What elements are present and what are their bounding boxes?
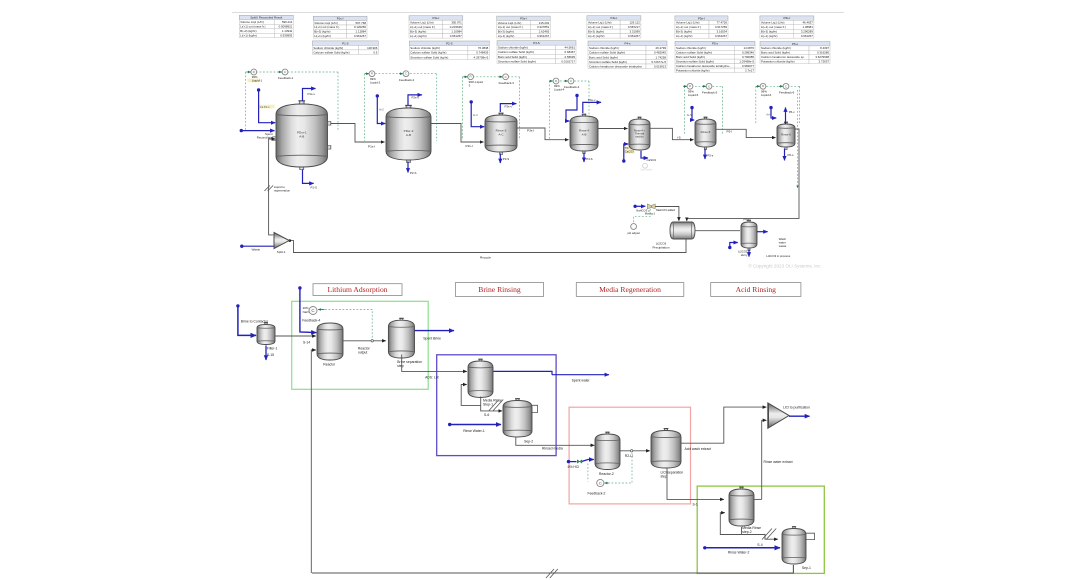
split node dot [289,239,292,242]
vessel brine separation [388,318,414,358]
NaOH label [303,306,311,314]
svg-text:Ai-3: Ai-3 [473,113,478,117]
stream P2-S [407,162,409,173]
ghost stream circle [643,163,648,168]
controller pH adjust [631,224,637,230]
svg-text:Calcium hexaboron dexaoxide te: Calcium hexaboron dexaoxide tetrahydra [589,65,642,69]
feed stream V2 [376,94,386,123]
separator Sep-2 [503,399,532,437]
stream spent water a [494,371,553,374]
region acid rinsing [697,486,824,573]
svg-text:6% HCl: 6% HCl [568,465,580,469]
svg-text:SplitU Reconciled Result: SplitU Reconciled Result [250,16,282,20]
svg-text:B(+3) (kg/hr): B(+3) (kg/hr) [588,30,604,34]
svg-text:590.214: 590.214 [282,20,293,24]
stream wash out [757,231,768,233]
filter Filter-1 [257,323,275,345]
svg-text:0.587217: 0.587217 [628,25,640,29]
stream mixer to precip [655,207,679,221]
svg-text:Feedback-4: Feedback-4 [302,319,320,323]
svg-text:Li(+1) (kg/hr): Li(+1) (kg/hr) [588,34,605,38]
stream sep1 bottom recycle [312,565,793,573]
svg-text:Ai-2: Ai-2 [379,108,384,112]
funnel left edge [767,403,769,428]
svg-text:Rinse Water-1: Rinse Water-1 [463,429,485,433]
svg-text:1.03498e-5: 1.03498e-5 [739,60,754,64]
svg-text:P2-S: P2-S [446,42,452,46]
svg-text:1.10984: 1.10984 [451,30,462,34]
stream S-1 [667,469,724,500]
vessel Rinse-5 [695,117,716,149]
svg-text:FI: FI [470,76,472,79]
svg-text:0.482045: 0.482045 [654,51,666,55]
stream P2s-I pipe [431,124,484,143]
svg-text:NaHCO3 added: NaHCO3 added [656,208,676,212]
stream P1s-v [303,89,316,102]
stream precip bottom [685,239,687,241]
svg-text:Sodium chloride (kg/hr): Sodium chloride (kg/hr) [498,46,528,50]
feedback-2 left dashes [587,464,589,482]
svg-text:2.55635: 2.55635 [565,55,576,59]
svg-text:Rinse-5: Rinse-5 [701,130,711,134]
controller feedback 4 [568,78,574,84]
stream NaOH feed [298,286,316,332]
liquid to regeneration label [274,185,291,193]
svg-text:Li(+1) out (mass fr.): Li(+1) out (mass fr.) [588,25,613,29]
svg-text:Sep-1: Sep-1 [802,566,811,570]
svg-text:350.971: 350.971 [451,21,462,25]
svg-text:Li(+1) (kg/hr): Li(+1) (kg/hr) [240,34,257,38]
controller feedback 3 [503,74,509,80]
controller PID 6 [760,83,766,89]
table P5s-I [675,16,728,38]
svg-text:P2s-I: P2s-I [433,16,440,20]
highlight behind Ca P1-s tag [259,105,275,109]
svg-text:C: C [785,84,787,88]
table P4-s [588,41,667,69]
control loop 3 right leg [518,77,520,140]
svg-text:S-1: S-1 [693,503,698,507]
stream media rinse to sep2 [481,397,502,411]
svg-text:S-15: S-15 [267,353,274,357]
svg-text:FI: FI [762,85,764,88]
vessel Li2CO3 precipitation [670,222,695,239]
svg-text:P2-S: P2-S [410,171,416,175]
svg-text:C: C [505,75,507,79]
svg-text:Feedback-6: Feedback-6 [779,91,795,95]
stream rinsed media [516,438,595,446]
header Brine Rinsing [455,283,543,297]
svg-text:S-6: S-6 [484,413,489,417]
svg-text:step-2: step-2 [742,530,752,534]
controller PID 1 [251,69,257,75]
svg-text:1.12884: 1.12884 [356,30,367,34]
reactor output node [371,340,373,342]
stream P4 pipe [598,128,628,130]
svg-text:output: output [358,351,367,355]
svg-text:Rinsed media: Rinsed media [542,447,563,451]
svg-text:Filter-1: Filter-1 [267,346,278,350]
svg-text:A-C: A-C [498,132,504,136]
svg-text:P1s-I: P1s-I [337,17,344,21]
controller feedback 5 [706,83,712,89]
svg-text:FI: FI [555,80,557,83]
svg-text:slurry: slurry [741,253,748,257]
stream ADS LiX [402,355,467,372]
svg-text:Liquid-1: Liquid-1 [252,79,263,83]
svg-text:Split-1: Split-1 [277,250,286,254]
stream recycle pipe [291,240,687,253]
stream rinse water extract [762,420,767,499]
loop sep1 to media rinse2 [720,513,741,535]
svg-text:Feedback-4: Feedback-4 [564,85,580,89]
controller 1 arrow a [247,71,251,73]
controller 4 label [554,84,565,92]
svg-text:Boric acid Solid (kg/hr): Boric acid Solid (kg/hr) [676,55,705,59]
feedback 6 long leg [797,90,799,188]
stream rinse water-1 [448,423,501,426]
vessel Rinse-3 [485,113,517,154]
media rinse step-1 label [483,398,502,406]
table P2s-I [409,16,463,38]
svg-text:B(+3) (kg/hr): B(+3) (kg/hr) [410,30,426,34]
control loop 4 right leg [588,81,590,139]
stream S-15 [265,346,267,361]
svg-text:Feedback-1: Feedback-1 [278,76,294,80]
svg-text:B(+3) (kg/hr): B(+3) (kg/hr) [498,30,514,34]
svg-text:3.72637: 3.72637 [819,60,830,64]
svg-text:P1-S: P1-S [342,41,348,45]
svg-text:Volume Liq1 (L/hr): Volume Liq1 (L/hr) [761,21,785,25]
vessel LiCl separation [651,429,681,468]
stream precip to wash pipe [695,230,740,232]
svg-text:step: step [397,364,404,368]
stream P1s-I pipe [331,124,385,143]
header Media Regeneration [576,283,684,297]
svg-text:46.4637: 46.4637 [802,21,813,25]
svg-text:Sodium chloride (kg/hr): Sodium chloride (kg/hr) [589,46,619,50]
region lithium adsorption [292,301,429,389]
controller 3 arrow a [464,76,468,78]
svg-text:14.0876: 14.0876 [744,46,755,50]
svg-text:Sodium chloride (kg/hr): Sodium chloride (kg/hr) [410,46,440,50]
svg-text:P5-s: P5-s [712,42,718,46]
stream LiCl to purification [789,415,810,417]
control loop 2 dashes [365,73,437,75]
svg-text:LiCl to purification: LiCl to purification [783,405,810,409]
loop junction to media rinse [461,385,481,406]
svg-text:Ai-6: Ai-6 [766,112,771,116]
stream media rinse2 to sep1 [742,527,778,539]
wash water waste label [779,237,787,248]
svg-text:P1s-I: P1s-I [368,144,375,148]
svg-text:Volume Liq1 (L/hr): Volume Liq1 (L/hr) [588,21,612,25]
svg-text:P6-v: P6-v [789,110,795,114]
svg-text:regeneration: regeneration [274,188,291,192]
pH adjust dashes [634,209,651,223]
svg-text:P3-S: P3-S [503,157,509,161]
svg-text:0.0098921: 0.0098921 [279,25,293,29]
stream acid wash extract [681,407,766,443]
svg-text:Recycle: Recycle [480,256,491,260]
svg-text:P2s-v: P2s-v [412,96,420,100]
svg-text:I-5: I-5 [677,136,681,140]
media rinse step-2 label [742,526,761,534]
stream HCl a [567,460,577,463]
stream S-14 [275,335,316,337]
recycle riser [311,350,316,573]
control loop 2 right leg [436,74,438,141]
feed stream V1 [257,88,275,122]
svg-text:Step-1: Step-1 [483,403,493,407]
stream I-5 pipe [650,128,694,139]
reactor Reactor [317,323,343,360]
stream spent brine [415,330,455,332]
feedback-2 right dashes [608,453,632,483]
svg-text:0.327851: 0.327851 [537,25,549,29]
svg-text:44.5661: 44.5661 [565,46,576,50]
svg-text:Strontium sulfate Solid (kg/hr: Strontium sulfate Solid (kg/hr) [676,60,714,64]
svg-text:P5-I: P5-I [727,129,733,133]
waste dot [240,245,243,248]
svg-text:Strontium sulfate Solid (kg/hr: Strontium sulfate Solid (kg/hr) [589,60,627,64]
svg-text:0.961267: 0.961267 [628,34,640,38]
svg-text:77.4726: 77.4726 [717,21,728,25]
svg-text:Li(+1) (kg/hr): Li(+1) (kg/hr) [761,34,778,38]
svg-text:C: C [570,79,572,83]
svg-text:A-B: A-B [582,132,587,136]
svg-text:B(+3) (kg/hr): B(+3) (kg/hr) [240,29,256,33]
svg-text:0.68467: 0.68467 [565,50,576,54]
svg-text:Sodium chloride (kg/hr): Sodium chloride (kg/hr) [313,46,343,50]
controller 5 arrow b [702,85,706,87]
control loop 1 left leg [245,72,247,131]
table P1s-I [313,16,367,38]
funnel LiCl collector [768,403,789,428]
svg-text:C: C [284,70,286,74]
liquid-to-regeneration pipe [269,139,276,235]
table SplitU Reconciled Result [239,15,293,38]
reactor Reactor-2 [595,432,620,469]
mixer Mixing-1 [647,204,655,209]
svg-text:Volume Liq1 (L/hr): Volume Liq1 (L/hr) [410,21,434,25]
svg-text:Media Regeneration: Media Regeneration [599,285,661,294]
svg-text:Waste: Waste [252,248,261,252]
svg-text:Liquid-5: Liquid-5 [688,93,699,97]
svg-text:waste: waste [779,244,787,248]
svg-text:B(+3) (kg/hr): B(+3) (kg/hr) [314,30,330,34]
svg-text:FI: FI [689,85,691,88]
feedback-4 arrow [318,309,324,311]
svg-text:129.122: 129.122 [629,21,640,25]
svg-text:Brine Rinsing: Brine Rinsing [478,285,521,294]
svg-text:B(+3) (kg/hr): B(+3) (kg/hr) [761,30,777,34]
stream P3-S [499,154,501,164]
stream P4-S [583,153,585,163]
svg-text:P6-s: P6-s [788,153,794,157]
svg-text:Li(+1) (kg/hr): Li(+1) (kg/hr) [410,34,427,38]
stream P3s-I pipe [517,128,569,140]
stream reactor output [343,340,386,342]
svg-text:Potassium chloride (kg/hr): Potassium chloride (kg/hr) [676,68,710,72]
svg-text:1.38981: 1.38981 [802,25,813,29]
controller 2 arrow b [399,73,403,75]
stream spent water b [552,374,609,376]
svg-text:P5-s: P5-s [707,154,713,158]
control loop 6 right leg [799,86,801,124]
feed stream V6 [690,106,694,120]
svg-text:118.906: 118.906 [367,46,378,50]
controller 6 arrow b [779,85,783,87]
svg-text:3.6279998: 3.6279998 [815,55,829,59]
svg-text:P3s-I: P3s-I [520,16,527,20]
control loop 4 dashes [550,80,590,82]
faint top rule [232,12,844,14]
svg-text:Liquid-2: Liquid-2 [370,80,381,84]
svg-text:Li(+1) out (mass fr.): Li(+1) out (mass fr.) [676,25,701,29]
stream R2-Li [620,450,650,452]
svg-text:Li(+1) out (mass fr.): Li(+1) out (mass fr.) [240,25,265,29]
svg-text:P1-S: P1-S [311,186,317,190]
svg-text:3.290289: 3.290289 [801,30,813,34]
control loop 3 left leg [461,77,463,140]
svg-text:3.31099: 3.31099 [629,30,640,34]
feed stream V3 [470,100,485,126]
svg-text:4.29708e-5: 4.29708e-5 [474,55,489,59]
svg-text:P4-s: P4-s [625,42,631,46]
controller PID 2 [369,71,375,77]
svg-text:Boric acid Solid (kg/hr): Boric acid Solid (kg/hr) [589,55,618,59]
svg-text:P6s-I: P6s-I [784,16,791,20]
svg-text:Calcium sulfate Solid (kg/hr): Calcium sulfate Solid (kg/hr) [676,51,712,55]
media rinse step-1 strikethrough [489,400,503,411]
table P4s-I [587,16,641,38]
stream P6-v [785,108,787,125]
svg-text:0.5: 0.5 [373,50,377,54]
svg-text:P5s-I: P5s-I [698,16,705,20]
svg-text:0.939993: 0.939993 [280,34,292,38]
svg-text:© Copyright 2023 OLI Systems,: © Copyright 2023 OLI Systems, Inc. [748,263,821,269]
feed stream V5 [622,144,628,163]
vessel Rinse-6 [777,122,795,149]
svg-text:CaSO4: CaSO4 [647,158,657,162]
svg-text:P3s-v: P3s-v [505,105,513,109]
vessel PDsr-1 side ports [273,122,331,150]
svg-text:P2s-I: P2s-I [466,144,473,148]
media rinse step-2 strikethrough [762,529,776,540]
svg-text:Ca P1-s: Ca P1-s [260,105,270,109]
vessel PDsr-1 [276,101,328,170]
controller 6 arrow a [756,85,760,87]
svg-text:A-B: A-B [406,133,411,137]
svg-text:Spent water: Spent water [572,378,591,382]
filter label [267,346,278,357]
svg-text:Sodium chloride (kg/hr): Sodium chloride (kg/hr) [676,46,706,50]
svg-text:FI: FI [371,73,373,76]
svg-text:Calcium hexaboron dexaoxide te: Calcium hexaboron dexaoxide tetrahydra..… [676,64,731,68]
svg-text:Volume Liq1 (L/hr): Volume Liq1 (L/hr) [240,20,264,24]
svg-text:1.13942: 1.13942 [282,29,293,33]
valve on HCl stream [577,460,582,463]
svg-text:0.961267: 0.961267 [715,34,727,38]
table P6s-I [760,16,814,38]
control loop 4 left leg [549,81,551,139]
svg-text:0.961267: 0.961267 [450,34,462,38]
svg-text:Boric acid Solid (kg/hr): Boric acid Solid (kg/hr) [498,55,527,59]
svg-text:FI: FI [253,71,255,74]
svg-text:Li(+1) out (mass fr.): Li(+1) out (mass fr.) [314,25,339,29]
region brine rinsing [437,355,556,456]
svg-text:Calcium hexaboron dexaoxide sp: Calcium hexaboron dexaoxide sp. [761,55,805,59]
svg-text:76.3838: 76.3838 [478,46,489,50]
svg-text:0.961267: 0.961267 [354,34,366,38]
svg-text:P4s-v: P4s-v [588,98,596,102]
controller 2 label [370,77,381,85]
svg-text:Li(+1) (kg/hr): Li(+1) (kg/hr) [314,34,331,38]
stream waste [242,245,274,247]
Li2CO3 precipitation label [652,242,669,250]
vessel PDsr-2 [386,105,431,162]
stream NaHCO3 feed [633,205,645,208]
svg-text:Acid Rinsing: Acid Rinsing [736,285,776,294]
pipe break symbol [264,186,273,192]
stream wash inlet [728,243,738,250]
stream G1 top right [754,498,762,500]
Li2CO3 slurry label [738,250,748,257]
svg-text:Rinse Water-2: Rinse Water-2 [728,551,750,555]
svg-text:B(+3) (kg/hr): B(+3) (kg/hr) [676,30,692,34]
svg-text:0.286346: 0.286346 [742,51,754,55]
svg-text:C: C [311,308,314,313]
svg-text:ADS: LiX: ADS: LiX [425,376,439,380]
control loop 6 dashes [756,85,800,87]
svg-text:3: 3 [469,84,471,88]
table P3-S [497,41,576,64]
feed stream V4 [566,94,579,121]
Sep-1 side arm [805,533,815,539]
vessel wash-water [741,220,757,250]
stream P6-I pipe [687,129,799,221]
Sep-2 side arm [531,405,538,412]
stream Li2CO3 slurry [748,250,750,257]
controller 6 label [761,90,772,98]
svg-text:0.316286: 0.316286 [817,51,829,55]
svg-text:Li(+1) out (mass fr.): Li(+1) out (mass fr.) [410,25,435,29]
table P2-S [409,41,489,59]
stream spent-reconciliate [240,129,275,132]
svg-text:S-14: S-14 [303,340,310,344]
V5 feed label [625,146,634,153]
svg-text:Strontium sulfate Solid (kg/hr: Strontium sulfate Solid (kg/hr) [410,55,448,59]
svg-text:Li(+1) (kg/hr): Li(+1) (kg/hr) [676,34,693,38]
svg-text:3.16534: 3.16534 [717,30,728,34]
svg-text:8.4397: 8.4397 [820,46,829,50]
controller 5 label [688,90,699,98]
svg-text:Potassium chloride (kg/hr): Potassium chloride (kg/hr) [761,60,795,64]
svg-text:Strontium sulfate Solid (kg/hr: Strontium sulfate Solid (kg/hr) [498,59,536,63]
highlight behind Liquid-1 label [248,79,261,83]
stream CaSO4 [641,151,648,158]
svg-text:P4s-I: P4s-I [611,16,618,20]
svg-text:R2-Li: R2-Li [625,454,633,458]
controller Feedback-2 [597,479,604,486]
svg-text:P3-S: P3-S [533,41,539,45]
svg-text:0.120266: 0.120266 [354,25,366,29]
svg-text:A-B: A-B [299,134,304,138]
controller feedback 6 [783,83,789,89]
svg-text:Sodium chloride (kg/hr): Sodium chloride (kg/hr) [761,46,791,50]
svg-text:Ai-5: Ai-5 [687,113,692,117]
